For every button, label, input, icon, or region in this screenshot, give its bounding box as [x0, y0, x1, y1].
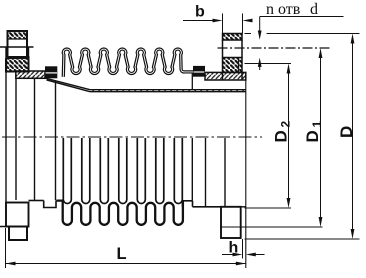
left bolt bottom (outline)	[9, 227, 27, 241]
left clamp (black band)	[45, 66, 57, 78]
dim b	[183, 4, 253, 34]
dim n отв d	[258, 1, 344, 70]
extension line D2 top	[245, 63, 292, 65]
left flange bottom (outline)	[6, 203, 29, 227]
liner cone (double line with ticks)	[44, 78, 90, 92]
extension line D bottom	[245, 238, 360, 240]
left pipe wall strip (hatched)	[16, 71, 45, 78]
pipe end face / extension line (right)	[245, 72, 247, 268]
liner tube (double line with ticks)	[90, 90, 246, 92]
extension line D1 bottom	[220, 226, 323, 228]
svg-text:n отв: n отв	[266, 1, 301, 18]
svg-text:D: D	[337, 126, 356, 138]
dim D	[337, 34, 356, 240]
bottom right pipe silhouette	[193, 206, 222, 208]
svg-text:1: 1	[310, 121, 324, 128]
left bolt (stud with nut, top)	[8, 31, 28, 58]
bolt hole centerline	[218, 47, 331, 49]
top bellows (double-wall convolutions)	[63, 49, 193, 77]
svg-text:d: d	[310, 1, 318, 18]
dim L	[6, 228, 246, 268]
svg-text:L: L	[117, 245, 127, 263]
bottom bellows silhouette (square wave)	[57, 201, 183, 225]
right flange (section, hatched)	[223, 34, 243, 81]
bore edge: clamp edge (right)	[205, 138, 207, 207]
dim D1	[303, 48, 324, 227]
bore edge: flange bore (right)	[224, 138, 226, 207]
bottom far-side convolution slots (pairs with arcs)	[63, 138, 182, 204]
bottom right clamp band (outline)	[183, 201, 193, 207]
bore edge: bellows collar edge	[55, 81, 57, 201]
svg-text:D: D	[272, 130, 291, 142]
right pipe wall strip (hatched)	[205, 72, 246, 80]
bottom left pipe silhouette	[29, 200, 44, 202]
svg-text:b: b	[195, 4, 205, 21]
svg-text:2: 2	[279, 121, 293, 128]
svg-text:D: D	[303, 130, 322, 142]
extension line D2 bottom	[245, 207, 292, 209]
right clamp (black band)	[193, 66, 205, 77]
left flange body (section, hatched)	[6, 57, 29, 72]
bore edge: liner weld ring	[34, 79, 36, 201]
bottom left clamp band (outline)	[44, 200, 56, 207]
centerline (axis)	[2, 136, 262, 138]
left flange faces (outline down to bottom)	[5, 47, 7, 227]
right flange bottom (outline)	[221, 207, 241, 238]
left flange top edge line	[0, 46, 34, 48]
extension line D top	[245, 33, 360, 35]
dim h	[222, 239, 265, 259]
bore edge: pipe end face left	[15, 79, 17, 201]
bore edge: bellows collar end (right)	[191, 74, 193, 90]
dim D2	[272, 64, 293, 209]
